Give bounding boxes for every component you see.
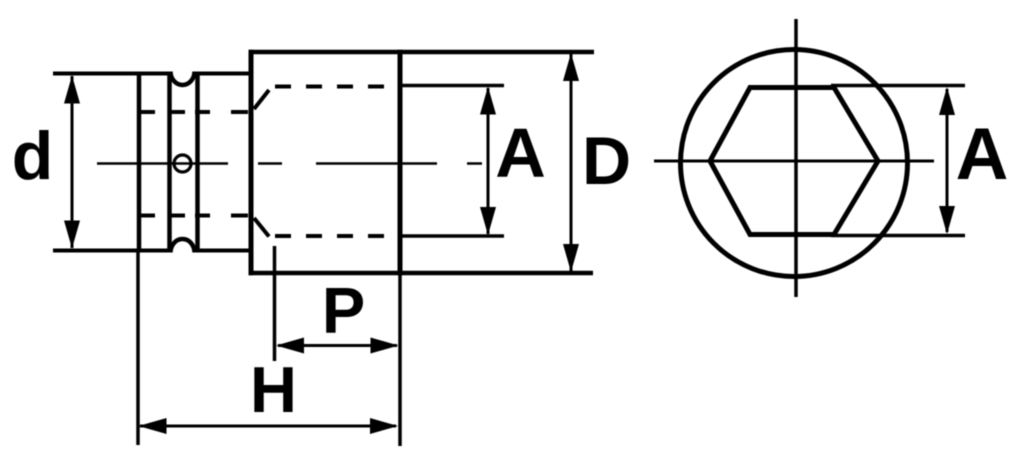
svg-text:d: d [12,118,54,194]
svg-text:D: D [582,123,631,199]
svg-text:A: A [956,114,1009,195]
svg-text:H: H [250,353,297,426]
svg-text:A: A [495,114,546,192]
svg-text:P: P [322,274,365,347]
